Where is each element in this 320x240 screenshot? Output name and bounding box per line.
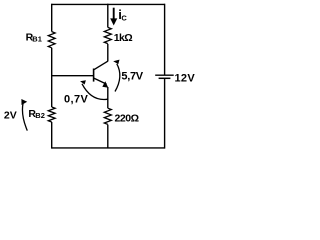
voltage arrow 5,7V arc <box>115 64 120 92</box>
voltage arrow 0,7V arc <box>82 84 108 100</box>
wire right upper <box>164 4 166 76</box>
svg-text:12V: 12V <box>175 73 196 85</box>
wire left mid <box>51 48 53 107</box>
transistor Q1 emitter arrowhead <box>102 81 108 88</box>
wire collector top <box>107 4 109 28</box>
resistor RC 1k <box>104 27 111 43</box>
current arrow iC <box>113 8 115 19</box>
transistor Q1 emitter lead <box>94 78 107 84</box>
svg-text:1kΩ: 1kΩ <box>114 32 132 44</box>
resistor RB1 <box>48 32 55 48</box>
svg-text:0,7V: 0,7V <box>64 94 88 106</box>
voltage arrow 2V arc <box>22 104 27 131</box>
svg-text:B1: B1 <box>32 35 42 44</box>
transistor Q1 base bar <box>93 69 95 82</box>
svg-text:5,7V: 5,7V <box>121 70 143 82</box>
wire left upper <box>51 4 53 32</box>
wire top <box>52 3 165 5</box>
wire collector lower <box>107 44 109 62</box>
wire bottom <box>52 147 165 149</box>
battery V1 plate long <box>155 74 174 76</box>
wire base <box>52 75 94 77</box>
battery V1 plate short <box>159 77 171 79</box>
svg-text:C: C <box>121 14 127 23</box>
resistor RE 220 <box>104 108 111 124</box>
svg-text:220Ω: 220Ω <box>115 112 139 124</box>
wire left lower <box>51 122 53 149</box>
svg-text:2V: 2V <box>4 109 17 121</box>
svg-text:B2: B2 <box>35 111 45 120</box>
wire right lower <box>164 79 166 149</box>
wire emitter lower <box>107 125 109 148</box>
transistor Q1 collector lead <box>94 61 108 69</box>
resistor RB2 <box>48 107 55 122</box>
wire emitter <box>107 87 109 108</box>
